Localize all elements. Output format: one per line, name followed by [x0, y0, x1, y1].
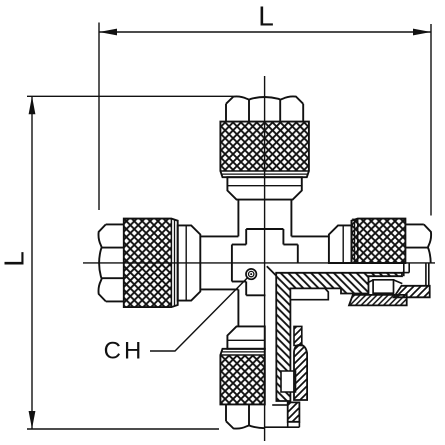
svg-text:L: L — [0, 251, 30, 267]
svg-text:CH: CH — [104, 338, 145, 365]
svg-text:L: L — [258, 1, 274, 32]
